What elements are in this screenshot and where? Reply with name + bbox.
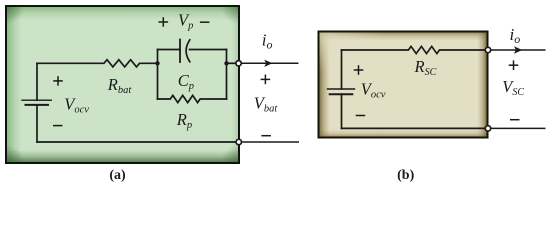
- svg-text:io: io: [262, 31, 273, 52]
- svg-text:Vbat: Vbat: [254, 94, 279, 115]
- svg-text:(b): (b): [397, 168, 414, 183]
- svg-text:(a): (a): [109, 168, 126, 183]
- svg-text:VSC: VSC: [502, 77, 524, 98]
- svg-text:io: io: [510, 25, 521, 46]
